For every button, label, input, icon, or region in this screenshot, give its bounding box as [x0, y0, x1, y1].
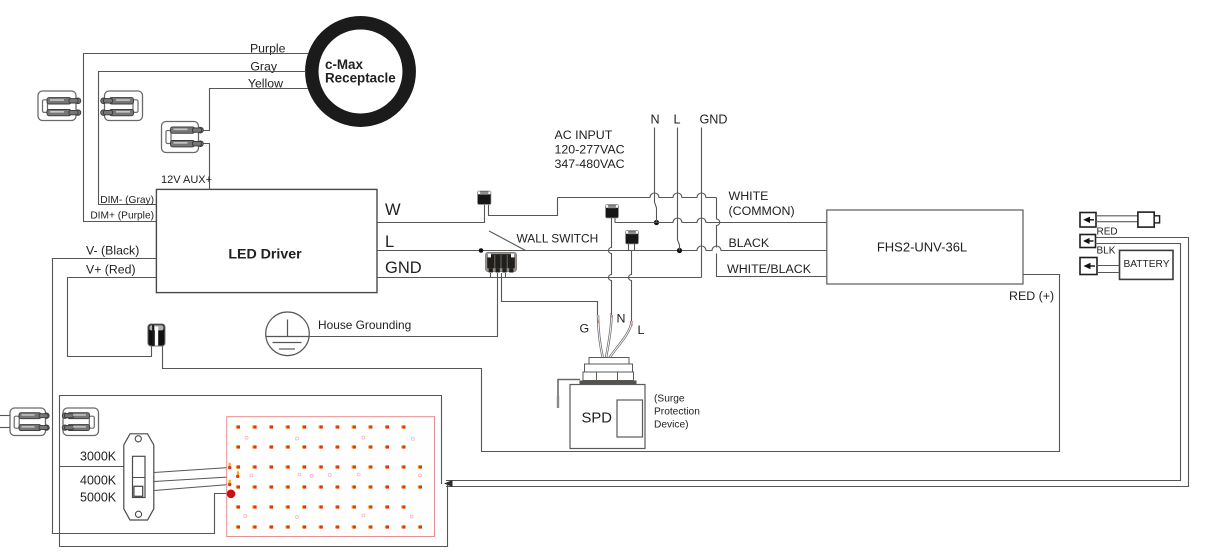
svg-text:N: N — [650, 113, 659, 127]
battery quick connector 3 (BLK) — [1080, 258, 1097, 275]
wire gnd block to SPD G — [502, 273, 598, 317]
SPD wires G N L (curved) — [598, 315, 632, 359]
svg-text:4000K: 4000K — [80, 474, 117, 488]
inline connector (V+/RED disconnect) — [148, 324, 165, 346]
svg-text:N: N — [617, 312, 626, 326]
wire purple: ring to left rail and down to DIM+ — [84, 54, 309, 222]
wire nut3 stubs to BLACK line — [629, 244, 635, 251]
wires into P3 from left edge — [0, 415, 10, 417]
svg-text:AC INPUT: AC INPUT — [555, 128, 613, 142]
svg-text:(COMMON): (COMMON) — [729, 204, 795, 218]
c-Max receptacle ring — [312, 23, 409, 120]
svg-text:Protection: Protection — [654, 407, 700, 418]
connector P2 (top-left mating pair, right half) — [101, 91, 143, 121]
svg-text:BLACK: BLACK — [729, 236, 770, 250]
CCT switch plate — [124, 434, 154, 520]
svg-text:House Grounding: House Grounding — [318, 318, 411, 332]
svg-text:5000K: 5000K — [80, 491, 117, 505]
connector 12V AUX — [162, 122, 204, 153]
SPD inner module — [617, 400, 643, 437]
svg-text:L: L — [638, 323, 645, 337]
wire GND line driver to AC gnd — [377, 277, 702, 279]
svg-text:LED Driver: LED Driver — [228, 247, 302, 263]
svg-text:WHITE/BLACK: WHITE/BLACK — [727, 262, 812, 276]
wire gray: ring to rail down to DIM- — [99, 72, 306, 205]
wire sq2 RED to LED board (inner) — [446, 244, 1181, 481]
wire nut 2 (N to SPD) — [606, 205, 619, 219]
svg-text:Device): Device) — [654, 420, 689, 431]
LED board — [227, 417, 435, 537]
wire L vertical — [678, 128, 680, 251]
wire BLACK down to SPD L with hop over GND line — [629, 251, 632, 324]
svg-text:12V AUX+: 12V AUX+ — [161, 174, 212, 186]
svg-text:BATTERY: BATTERY — [1123, 259, 1169, 270]
fuse holder cable — [1096, 216, 1138, 222]
svg-text:3000K: 3000K — [80, 450, 117, 464]
svg-text:120-277VAC: 120-277VAC — [555, 143, 625, 157]
junction dot L-switch — [479, 248, 484, 253]
wire L / BLACK line with hops at GND vert and 716 vert — [377, 246, 827, 251]
wires sq3 to battery — [1097, 265, 1120, 267]
wire W to wire nut — [377, 205, 485, 223]
wire nut 1 (W) — [478, 191, 492, 205]
bottom loop rectangle — [60, 396, 448, 547]
BATTERY box — [1120, 250, 1174, 279]
svg-text:DIM- (Gray): DIM- (Gray) — [100, 195, 154, 206]
LED Driver box — [156, 189, 377, 292]
svg-text:SPD: SPD — [582, 411, 612, 427]
red glints on SPD wire bends — [597, 313, 632, 326]
svg-text:V- (Black): V- (Black) — [86, 244, 139, 258]
wire V- black: driver to left rail, down, across, up to LED board — [53, 259, 228, 534]
ground symbol — [266, 320, 309, 350]
svg-text:FHS2-UNV-36L: FHS2-UNV-36L — [877, 240, 967, 255]
wall switch blade — [489, 231, 526, 251]
svg-text:L: L — [385, 233, 394, 251]
arrowhead to LED board — [444, 480, 453, 487]
svg-text:G: G — [580, 322, 590, 336]
svg-text:WHITE: WHITE — [729, 189, 769, 203]
SPD terminal stack — [583, 358, 634, 381]
big red node — [227, 490, 236, 499]
connector P1 (top-left mating pair, left half) — [38, 91, 81, 121]
SPD bracket — [558, 380, 580, 397]
house grounding circle — [266, 312, 310, 356]
svg-text:W: W — [385, 201, 401, 219]
svg-text:GND: GND — [700, 113, 728, 127]
wire nut 3 (L to SPD) — [626, 231, 639, 245]
wire from nut1 up-and-over to line A — [489, 198, 558, 216]
board input marks — [229, 463, 231, 467]
wire V+ red: driver to rail down to disconnect connector — [68, 278, 157, 357]
wire red+ : disconnect connector down right up to FHS2 — [163, 275, 1060, 452]
connector P4 (bottom-left pair, right half) — [62, 408, 98, 436]
svg-text:WALL SWITCH: WALL SWITCH — [517, 232, 599, 246]
junction dot L-black — [677, 248, 682, 253]
battery quick connector 2 (RED) — [1080, 235, 1096, 248]
svg-text:BLK: BLK — [1097, 246, 1116, 257]
svg-text:V+ (Red): V+ (Red) — [86, 263, 136, 277]
wire yellow: connector to LED driver top — [203, 144, 210, 190]
fuse holder — [1138, 212, 1154, 227]
wire sq2 RED to LED board (outer) — [446, 238, 1189, 487]
svg-text:347-480VAC: 347-480VAC — [555, 157, 625, 171]
svg-text:RED: RED — [1097, 227, 1118, 238]
SPD box — [570, 385, 645, 449]
wire nut2 down to SPD N with hops over BLACK and GND lines — [609, 218, 612, 317]
wire 3000K tap — [60, 466, 124, 468]
multipin connector (GND block) — [486, 253, 517, 273]
wire switch out 2 — [154, 477, 237, 482]
svg-text:(Surge: (Surge — [654, 394, 685, 405]
wire N vertical — [655, 128, 657, 223]
battery quick connector 1 — [1080, 213, 1096, 228]
svg-text:DIM+ (Purple): DIM+ (Purple) — [90, 211, 154, 222]
LED dot array — [236, 426, 238, 429]
wire vertical to WHITE/BLACK with hop over WHITE and joining below — [717, 198, 720, 248]
wire WHITE common: nut2 to FHS2 with hops over L and GND — [615, 218, 827, 223]
connector P3 (bottom-left pair, left half) — [10, 408, 49, 436]
wire gnd block to house grounding — [310, 273, 498, 337]
wire gnd block stub right to GND line — [505, 273, 507, 278]
wire gnd block stub left to GND line — [490, 273, 492, 278]
svg-text:RED (+): RED (+) — [1009, 289, 1054, 303]
wire GND vertical — [701, 128, 703, 278]
wire switch out 1 — [154, 468, 230, 473]
svg-text:GND: GND — [385, 259, 422, 277]
svg-text:L: L — [673, 113, 680, 127]
wire yellow: ring down to 12V AUX connector — [203, 89, 309, 131]
junction dot N-white — [654, 220, 659, 225]
FHS2-UNV-36L box — [827, 210, 1023, 284]
wire switch out 3 — [154, 485, 230, 491]
svg-text:Receptacle: Receptacle — [325, 71, 396, 86]
SPD dark bar — [580, 381, 637, 385]
wire line A (switched) with hops over N L GND — [558, 193, 717, 198]
